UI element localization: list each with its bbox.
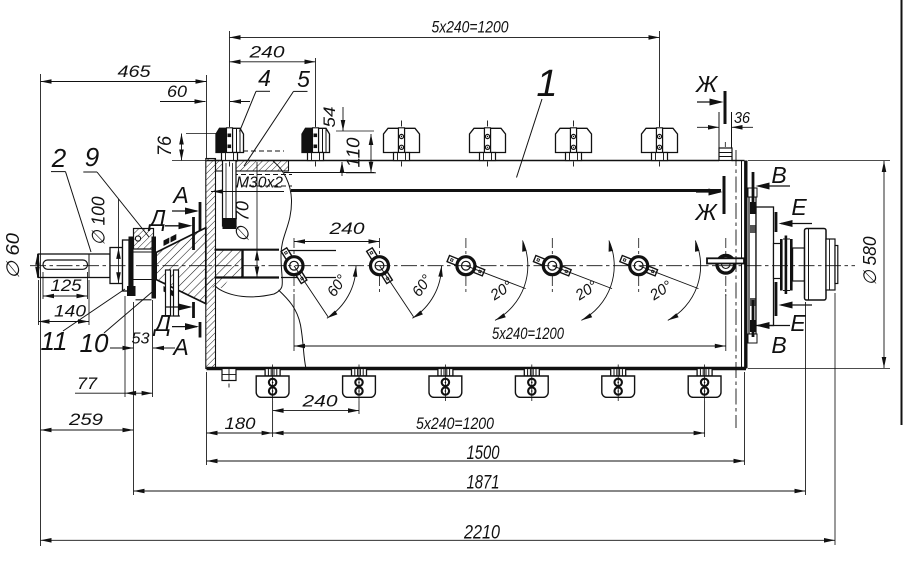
section mark D top bbox=[192, 217, 195, 250]
svg-text:60: 60 bbox=[167, 82, 188, 101]
casing inner top thick line bbox=[291, 189, 721, 192]
dimension 53 bbox=[110, 347, 134, 349]
bearing block bbox=[805, 229, 827, 301]
dimension 240 top bbox=[230, 61, 316, 63]
svg-text:2210: 2210 bbox=[463, 523, 500, 544]
svg-text:259: 259 bbox=[68, 410, 104, 429]
section mark A top bbox=[199, 202, 202, 231]
svg-text:5: 5 bbox=[297, 66, 310, 92]
dimension 36 bbox=[697, 126, 719, 128]
svg-text:53: 53 bbox=[132, 331, 150, 348]
dimension 5x240=1200 bottom bbox=[273, 432, 705, 434]
20 deg angle mark at x=639 bbox=[639, 266, 699, 289]
dimension 54 bbox=[342, 107, 344, 131]
dimension 77 bbox=[75, 392, 125, 394]
casing top flange line bbox=[207, 160, 720, 162]
bottom clamp bolt at x=532 bbox=[515, 365, 548, 402]
keyway bbox=[43, 260, 88, 269]
casing liner inner edge line bbox=[284, 172, 375, 174]
cap lip bbox=[835, 246, 838, 284]
svg-text:В: В bbox=[771, 162, 786, 188]
bearing cap bbox=[826, 239, 835, 290]
section mark A bottom bbox=[199, 322, 202, 338]
svg-text:Е: Е bbox=[790, 310, 806, 336]
hub cone sectioned with hatch bbox=[155, 228, 206, 304]
extension lines bbox=[40, 74, 42, 546]
section mark Zh top bbox=[724, 91, 727, 124]
svg-text:М30х2: М30х2 bbox=[236, 175, 283, 192]
hub boss right face bbox=[241, 250, 243, 278]
svg-text:5x240=1200: 5x240=1200 bbox=[492, 324, 564, 343]
stud M30x2 through flange bbox=[223, 161, 237, 227]
hammer blade at x=380, 58 deg bbox=[379, 238, 381, 294]
svg-text:Д: Д bbox=[147, 205, 166, 231]
svg-text:2: 2 bbox=[51, 143, 67, 173]
dimension 1500 bbox=[207, 460, 745, 462]
dimension 180 bbox=[207, 432, 273, 434]
top clamp bolt at x=315.5 bbox=[302, 121, 330, 167]
top clamp bolt at x=573.5 bbox=[556, 121, 592, 167]
top clamp bolt at x=487.5 bbox=[470, 121, 506, 167]
section mark E bottom bbox=[775, 282, 778, 316]
svg-text:Д: Д bbox=[152, 310, 171, 336]
section mark Zh bottom bbox=[723, 176, 726, 214]
section mark V top bbox=[752, 172, 755, 210]
dimension 5x240=1200 interior bbox=[294, 345, 726, 347]
bottom clamp bolt at x=445 bbox=[429, 365, 462, 402]
hidden stud line right of bolt1 bbox=[243, 150, 284, 152]
svg-text:Ж: Ж bbox=[695, 71, 719, 97]
bottom clamp bolt at x=705 bbox=[688, 365, 721, 402]
hammer blade at x=639, 22 deg bbox=[638, 238, 640, 294]
hub boss inside casing, sectioned bbox=[216, 250, 243, 278]
svg-text:В: В bbox=[771, 332, 786, 358]
bearing housing left bar bbox=[129, 237, 134, 292]
20 deg angle mark at x=552 bbox=[552, 266, 612, 289]
svg-text:110: 110 bbox=[344, 138, 364, 168]
bottom clamp bolt at x=618 bbox=[602, 365, 635, 402]
right end plate on casing wall bbox=[749, 197, 756, 334]
svg-text:∅ 580: ∅ 580 bbox=[860, 237, 880, 286]
drawing frame border right bbox=[901, 0, 903, 425]
rotor shaft lines inside casing bbox=[281, 250, 336, 252]
dimension 5x240=1200 top bbox=[230, 36, 660, 38]
svg-text:А: А bbox=[171, 334, 188, 360]
dimension 1871 bbox=[134, 490, 806, 492]
svg-text:∅ 60: ∅ 60 bbox=[3, 233, 23, 279]
bearing inner race lines bbox=[134, 251, 154, 253]
break line lower part bbox=[279, 290, 307, 369]
svg-text:1500: 1500 bbox=[467, 443, 500, 464]
shaft step d100 bbox=[110, 248, 123, 284]
svg-text:А: А bbox=[171, 182, 188, 208]
svg-text:Е: Е bbox=[791, 194, 807, 220]
shaft d70 bottom edge bbox=[215, 276, 280, 278]
hammer blade at x=466, 22 deg bbox=[465, 238, 467, 294]
svg-text:∅ 100: ∅ 100 bbox=[89, 197, 109, 246]
dimension 240 bottom bbox=[273, 410, 359, 412]
top clamp bolt at x=401.5 bbox=[384, 121, 420, 167]
break line (wavy) on casing left end bbox=[216, 161, 292, 297]
60 deg angle mark at x=380 bbox=[380, 266, 414, 317]
top clamp bolt at x=659.5 bbox=[642, 121, 678, 167]
svg-text:1871: 1871 bbox=[467, 473, 500, 494]
small stud bolt at casing right joint bbox=[718, 112, 720, 148]
svg-text:240: 240 bbox=[328, 219, 365, 238]
dimension d100 bbox=[118, 199, 120, 284]
dimension d580 bbox=[748, 160, 890, 162]
bearing housing right bar bbox=[152, 237, 157, 299]
shaft d70 top edge bbox=[215, 249, 280, 251]
svg-text:5x240=1200: 5x240=1200 bbox=[432, 18, 509, 37]
svg-text:125: 125 bbox=[51, 276, 83, 295]
casing bottom thick line bbox=[207, 367, 747, 371]
svg-text:77: 77 bbox=[77, 374, 98, 393]
section mark E top bbox=[775, 212, 778, 232]
shaft pos.2 bbox=[39, 254, 111, 278]
20 deg angle mark at x=466 bbox=[466, 266, 526, 289]
dimension 259 bbox=[41, 429, 134, 431]
hammer blade at x=294, 58 deg bbox=[293, 238, 295, 294]
svg-text:9: 9 bbox=[85, 142, 99, 172]
60 deg angle mark at x=294 bbox=[294, 266, 328, 317]
svg-text:240: 240 bbox=[248, 43, 285, 62]
dimension d60 bbox=[37, 254, 39, 278]
right bearing cylinder bbox=[756, 207, 774, 326]
dimension 2210 bbox=[41, 539, 836, 541]
bottom clamp bolt at x=359 bbox=[343, 365, 376, 402]
section mark D bottom bbox=[192, 302, 195, 318]
right shaft section 2 bbox=[793, 248, 805, 281]
dimension 140 bbox=[39, 321, 90, 323]
small inspection square under casing left bbox=[222, 369, 236, 381]
dimension 240 interior bbox=[294, 241, 380, 243]
coupling ring stack bbox=[780, 239, 783, 291]
hidden thread dashed lines below flange bbox=[225, 174, 292, 176]
casing right wall bbox=[741, 161, 743, 369]
bearing roller top (hatched) bbox=[134, 229, 154, 250]
svg-text:1: 1 bbox=[536, 63, 557, 105]
top clamp bolt at x=229.5 bbox=[216, 121, 244, 167]
main horizontal centerline bbox=[30, 265, 855, 267]
seal disc pair on shaft bbox=[166, 270, 171, 316]
lock nubs on cone top slant bbox=[164, 238, 170, 247]
svg-text:465: 465 bbox=[118, 62, 152, 81]
bottom clamp bolt at x=273 bbox=[256, 365, 289, 402]
dimension 60 bbox=[160, 101, 206, 103]
collar bbox=[123, 240, 130, 291]
hub cone left face thick edge bbox=[154, 252, 157, 281]
dimension 76 bbox=[181, 134, 183, 161]
hammer blade at x=726, 0 deg bbox=[725, 238, 727, 296]
svg-text:Ж: Ж bbox=[694, 199, 718, 225]
svg-text:36: 36 bbox=[734, 110, 750, 127]
vertical axis line at joint bbox=[735, 150, 737, 428]
bearing lower cap line bbox=[136, 299, 152, 301]
casing top plate sectioned band at left end bbox=[216, 161, 289, 172]
casing left wall hatched, full height bbox=[206, 159, 216, 369]
right shaft neck bbox=[774, 244, 782, 279]
svg-text:5x240=1200: 5x240=1200 bbox=[416, 414, 494, 433]
dimension 110 bbox=[370, 134, 372, 173]
hatch tuft below hub at wall bbox=[206, 279, 229, 289]
dimension 125 bbox=[43, 295, 88, 297]
svg-text:4: 4 bbox=[258, 65, 271, 91]
svg-text:∅ 70: ∅ 70 bbox=[233, 201, 253, 242]
svg-text:240: 240 bbox=[301, 392, 338, 411]
svg-text:180: 180 bbox=[225, 414, 257, 433]
svg-text:140: 140 bbox=[54, 302, 87, 321]
svg-text:54: 54 bbox=[320, 107, 339, 128]
lock nubs on cone bottom slant bbox=[164, 286, 170, 295]
hammer blade at x=552, 22 deg bbox=[551, 238, 553, 294]
section mark V bottom bbox=[752, 300, 755, 337]
dimension 465 bbox=[41, 81, 207, 83]
dimension d70 bbox=[256, 162, 258, 278]
svg-text:76: 76 bbox=[155, 136, 176, 156]
